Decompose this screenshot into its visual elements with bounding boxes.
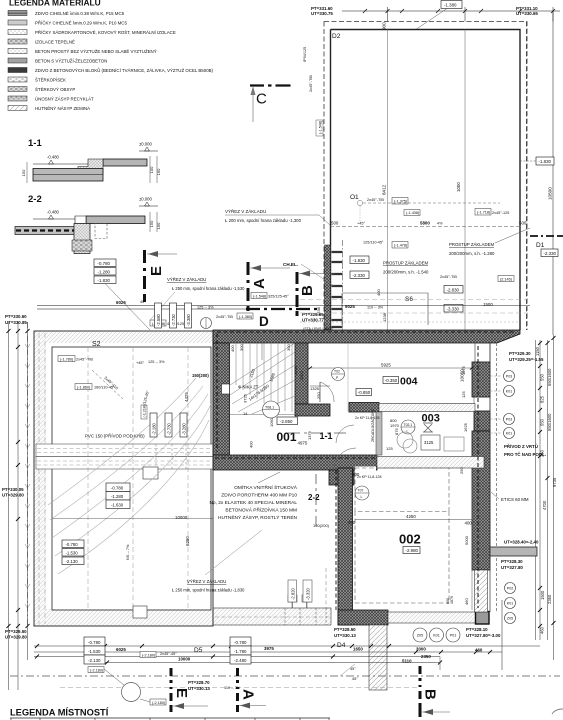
wall top <box>213 330 520 343</box>
svg-text:-2.130: -2.130 <box>88 658 101 663</box>
svg-text:ZDIVO POROTHERM 400 MM P10: ZDIVO POROTHERM 400 MM P10 <box>221 493 297 499</box>
svg-text:IZOLACE TEPELNÉ: IZOLACE TEPELNÉ <box>35 40 75 45</box>
svg-text:+45°: +45° <box>357 222 365 226</box>
svg-text:D5: D5 <box>194 647 203 654</box>
svg-text:1060: 1060 <box>269 417 274 427</box>
wall bottom of room 002 <box>338 610 388 625</box>
svg-text:125 -- 3%: 125 -- 3% <box>197 306 214 310</box>
svg-text:(-2.180): (-2.180) <box>142 654 156 658</box>
svg-text:900: 900 <box>382 22 387 30</box>
svg-text:125: 125 <box>386 446 393 451</box>
svg-text:UT=330.13: UT=330.13 <box>334 633 356 638</box>
svg-text:T08.1: T08.1 <box>265 406 274 410</box>
svg-text:2x45°-TIB: 2x45°-TIB <box>76 358 93 362</box>
svg-text:-1.530: -1.530 <box>88 649 101 654</box>
svg-text:1625: 1625 <box>463 422 468 432</box>
svg-text:P03: P03 <box>506 375 512 379</box>
left dashed outer boundary <box>27 322 29 626</box>
svg-text:UT=329.25=-1.55: UT=329.25=-1.55 <box>509 357 544 362</box>
svg-text:400: 400 <box>465 521 473 526</box>
svg-text:4250: 4250 <box>406 514 416 519</box>
svg-text:10500: 10500 <box>548 187 553 200</box>
svg-text:T02: T02 <box>334 370 340 374</box>
svg-text:2x45°-TIB: 2x45°-TIB <box>216 315 233 319</box>
vertical line right of B bottom <box>501 600 503 670</box>
svg-text:5000: 5000 <box>464 535 469 545</box>
svg-text:9025: 9025 <box>345 304 355 309</box>
right dim chain <box>536 335 554 660</box>
grid dashed verticals <box>88 347 188 610</box>
marker B top <box>283 262 335 316</box>
svg-text:PVC 150 (PŘÍVOD POD KRB): PVC 150 (PŘÍVOD POD KRB) <box>85 434 145 439</box>
corner block bottom right <box>476 612 490 625</box>
svg-text:5110: 5110 <box>402 659 412 664</box>
svg-text:D4: D4 <box>337 642 346 649</box>
marker E bottom <box>171 668 208 712</box>
legend row 5 plain concrete <box>8 49 157 55</box>
svg-text:150(200): 150(200) <box>192 373 209 378</box>
svg-text:K01: K01 <box>506 432 512 436</box>
svg-text:-1.830: -1.830 <box>353 258 366 263</box>
svg-text:2x45°-TIB: 2x45°-TIB <box>309 75 313 92</box>
left edge hatched pier stripe <box>332 252 343 327</box>
svg-text:-2.330: -2.330 <box>353 273 366 278</box>
mid foundation strip B <box>36 457 213 470</box>
svg-text:-0.780: -0.780 <box>98 261 111 266</box>
(-1.548) box <box>251 293 267 299</box>
room 002 dashed inner rect <box>355 468 449 512</box>
svg-text:250: 250 <box>459 467 464 474</box>
svg-text:P01: P01 <box>450 634 457 638</box>
svg-text:B: B <box>422 689 439 700</box>
svg-text:CH.EL.: CH.EL. <box>283 262 298 267</box>
svg-text:550: 550 <box>540 418 545 426</box>
svg-text:-0.480: -0.480 <box>47 210 60 215</box>
dim right 100/160 <box>149 156 151 183</box>
svg-text:150: 150 <box>21 169 26 176</box>
svg-text:300: 300 <box>286 344 291 351</box>
svg-text:UT=327.80: UT=327.80 <box>501 565 523 570</box>
legend row 8 gravel sand <box>8 77 66 83</box>
elevation stack lower left <box>62 540 84 565</box>
-1.380 box top <box>441 1 462 9</box>
svg-text:Np, 2x ELASTEK 40 SPECIAL MINE: Np, 2x ELASTEK 40 SPECIAL MINERAL <box>209 500 297 506</box>
svg-text:1-1: 1-1 <box>28 138 42 149</box>
svg-text:C: C <box>256 91 267 108</box>
svg-text:1970: 1970 <box>390 423 400 428</box>
svg-text:PT=330.60: PT=330.60 <box>5 314 27 319</box>
svg-text:-2.130: -2.130 <box>66 559 79 564</box>
washbasin box <box>421 435 440 450</box>
small (-2.180) boxes <box>88 667 104 673</box>
svg-text:-2.480: -2.480 <box>234 658 247 663</box>
svg-text:(STA.) RVS SWS5: (STA.) RVS SWS5 <box>303 327 333 331</box>
svg-text:300: 300 <box>239 344 244 351</box>
svg-text:4700: 4700 <box>542 500 547 510</box>
svg-text:45°: 45° <box>140 300 146 304</box>
svg-text:Z05: Z05 <box>507 617 513 621</box>
svg-text:(-1.218): (-1.218) <box>143 405 147 418</box>
right step slab <box>490 547 537 556</box>
svg-text:4975: 4975 <box>298 441 308 446</box>
svg-text:1325: 1325 <box>310 386 320 391</box>
rooms table top edge <box>10 717 330 719</box>
svg-text:-0.780: -0.780 <box>234 640 247 645</box>
svg-text:8412: 8412 <box>382 184 387 195</box>
svg-text:2000: 2000 <box>299 370 304 380</box>
terrace outer dashed outline <box>324 22 527 331</box>
svg-text:5925: 5925 <box>381 363 391 368</box>
svg-text:2x45°-125: 2x45°-125 <box>492 211 509 215</box>
svg-text:1870: 1870 <box>450 596 454 604</box>
svg-text:-3.380: -3.380 <box>186 313 191 326</box>
dim lines mid across courtyard <box>297 305 530 307</box>
svg-text:1150: 1150 <box>535 346 540 356</box>
svg-text:PT=329.30: PT=329.30 <box>509 351 531 356</box>
svg-text:K01: K01 <box>507 602 513 606</box>
svg-text:400: 400 <box>230 345 235 352</box>
svg-text:-1.380: -1.380 <box>444 3 457 8</box>
svg-text:14: 14 <box>243 411 248 416</box>
drain circle near D <box>201 318 212 329</box>
terrace joint line 8412 <box>387 30 389 331</box>
svg-text:3000: 3000 <box>416 647 426 652</box>
stair block <box>78 159 103 174</box>
svg-text:(-2.180): (-2.180) <box>90 669 104 673</box>
svg-text:PŘÍČKY CIHELNÉ λmin.0.29 W/m.K: PŘÍČKY CIHELNÉ λmin.0.29 W/m.K, P10 MC5 <box>35 21 127 26</box>
svg-text:250: 250 <box>316 392 321 399</box>
svg-text:4%: 4% <box>437 222 443 226</box>
svg-text:002: 002 <box>399 532 421 547</box>
svg-text:2x KP 11,8-128: 2x KP 11,8-128 <box>355 416 379 420</box>
svg-text:BETON PROSTÝ BEZ VÝZTUŽE NEBO: BETON PROSTÝ BEZ VÝZTUŽE NEBO SLABĚ VYZT… <box>35 49 157 54</box>
terrace inner solid rectangle <box>331 30 521 331</box>
right circles lower <box>505 583 516 624</box>
svg-text:BETON S VÝZTUŽÍ-ŽELEZOBETON: BETON S VÝZTUŽÍ-ŽELEZOBETON <box>35 59 107 64</box>
svg-text:550/1600: 550/1600 <box>547 413 552 431</box>
svg-text:(-1.380): (-1.380) <box>239 315 253 319</box>
svg-text:2x KP 11,8-128: 2x KP 11,8-128 <box>357 475 381 479</box>
svg-text:-3.320: -3.320 <box>306 587 311 600</box>
marker B bottom <box>420 666 450 717</box>
(-1.738) box small top <box>150 320 166 326</box>
svg-text:200/200mm, s.h. -1.280: 200/200mm, s.h. -1.280 <box>449 251 495 256</box>
-1.830 box right <box>536 157 554 165</box>
svg-text:10000: 10000 <box>175 515 188 520</box>
wall right segment d <box>474 411 490 431</box>
lower slab <box>33 169 103 182</box>
svg-text:UT=330.13: UT=330.13 <box>188 686 210 691</box>
svg-text:O1: O1 <box>350 194 359 201</box>
dim 500 5800 500 dashed <box>330 226 520 228</box>
dashed axis bottom <box>10 675 560 677</box>
wall 004/003 light part <box>379 404 475 412</box>
svg-text:(-1.478): (-1.478) <box>394 244 408 248</box>
svg-text:P02: P02 <box>507 587 513 591</box>
svg-text:160: 160 <box>156 222 161 229</box>
svg-text:(-1.548): (-1.548) <box>319 120 323 134</box>
svg-text:E: E <box>148 266 165 276</box>
legend row 6 reinforced concrete <box>8 58 107 64</box>
svg-text:Z05: Z05 <box>417 634 424 638</box>
svg-text:2-2: 2-2 <box>308 493 320 502</box>
left PT/UT labels <box>2 314 27 640</box>
top dimension line <box>342 7 560 22</box>
bottom dim chain <box>34 646 540 663</box>
wall 004/003 dark part <box>349 403 379 413</box>
footing strip below bottom wall <box>369 625 387 690</box>
svg-text:1238: 1238 <box>382 312 387 322</box>
svg-text:500: 500 <box>519 221 527 226</box>
svg-text:1375: 1375 <box>307 430 312 440</box>
left small marks <box>303 47 313 92</box>
svg-text:4425: 4425 <box>184 392 189 402</box>
svg-text:200/200mm, s.h. -1.540: 200/200mm, s.h. -1.540 <box>383 270 429 275</box>
dim line above building <box>37 306 297 310</box>
terrace joint line 10050 <box>464 30 466 331</box>
svg-text:Ł 200 mm, spodní hrana základu: Ł 200 mm, spodní hrana základu -1,300 <box>225 218 302 223</box>
legend row 7 concrete block masonry <box>8 68 214 74</box>
svg-text:3725: 3725 <box>243 393 248 403</box>
svg-text:1000: 1000 <box>456 182 461 192</box>
ETICS dashed boundary right <box>496 343 498 612</box>
svg-text:-0.850: -0.850 <box>358 390 371 395</box>
svg-text:ETICS 60 MM: ETICS 60 MM <box>501 497 529 502</box>
legend row 1 brick masonry <box>8 11 125 17</box>
wall right top piece <box>475 343 490 362</box>
svg-text:400: 400 <box>348 520 356 525</box>
svg-text:VÝŘEZ V ZÁKLADU: VÝŘEZ V ZÁKLADU <box>225 207 266 214</box>
svg-text:460: 460 <box>540 626 545 634</box>
svg-text:-0.480: -0.480 <box>47 155 60 160</box>
svg-text:460: 460 <box>464 598 469 605</box>
svg-text:400: 400 <box>249 441 254 448</box>
svg-text:-0.780: -0.780 <box>88 640 101 645</box>
svg-text:-1.280: -1.280 <box>111 494 124 499</box>
svg-text:-2.980: -2.980 <box>406 548 419 553</box>
svg-text:1650: 1650 <box>353 647 363 652</box>
svg-text:001: 001 <box>277 430 297 444</box>
svg-text:HUTNĚNÝ NÁSYP ZEMINA: HUTNĚNÝ NÁSYP ZEMINA <box>35 106 90 111</box>
elevation stack top left <box>94 259 116 284</box>
dim right 150/160 <box>149 212 151 232</box>
stairs in room 001 <box>230 343 295 415</box>
svg-text:±0.000: ±0.000 <box>139 197 152 202</box>
svg-text:1500: 1500 <box>293 365 298 375</box>
leader diagonal <box>92 370 123 399</box>
wall bottom of room 001 <box>213 455 377 470</box>
bottom elevation stack mid <box>230 637 251 664</box>
svg-text:-1.530: -1.530 <box>66 551 79 556</box>
svg-text:3975: 3975 <box>264 646 274 651</box>
legend row 3 drywall partitions <box>8 30 176 36</box>
bottom right detail arc <box>552 709 563 714</box>
svg-text:9735: 9735 <box>552 477 557 487</box>
foundation wall block <box>74 224 90 254</box>
right circles P03 K01 <box>504 371 515 439</box>
svg-text:PROSTUP ZÁKLADEM: PROSTUP ZÁKLADEM <box>383 261 428 266</box>
marker A top <box>248 262 290 311</box>
svg-text:500: 500 <box>331 221 339 226</box>
upper slab <box>86 216 145 224</box>
bottom circles row <box>413 628 460 642</box>
svg-text:-1.280: -1.280 <box>98 270 111 275</box>
svg-text:D1: D1 <box>536 242 545 249</box>
svg-text:110 -- 3%: 110 -- 3% <box>224 686 241 690</box>
left slab with insulation dashes <box>15 227 84 235</box>
svg-text:10000: 10000 <box>178 657 191 662</box>
svg-text:LEGENDA MATERIÁLŮ: LEGENDA MATERIÁLŮ <box>9 0 101 8</box>
marker D <box>246 309 317 329</box>
excavation perimeter hatch bands <box>34 331 213 343</box>
svg-text:L: L <box>361 495 363 499</box>
svg-text:ŠTĚRKOPÍSEK: ŠTĚRKOPÍSEK <box>35 78 66 83</box>
mid foundation strip A <box>36 444 213 457</box>
sub rectangle below S6 <box>342 293 428 325</box>
svg-text:PT=328.10: PT=328.10 <box>466 627 488 632</box>
svg-text:6025: 6025 <box>116 647 126 652</box>
svg-text:110 -- 3%: 110 -- 3% <box>367 306 384 310</box>
svg-text:550: 550 <box>540 373 545 381</box>
rotated elevation boxes top <box>155 303 192 328</box>
svg-text:K01: K01 <box>506 390 512 394</box>
rotated elevation boxes near bottom band <box>288 580 297 602</box>
svg-text:1238: 1238 <box>316 306 321 316</box>
wall left of room 002 <box>338 468 353 625</box>
svg-text:+45°: +45° <box>136 361 144 365</box>
svg-text:460: 460 <box>475 648 483 653</box>
svg-text:5800: 5800 <box>420 221 430 226</box>
svg-text:A: A <box>251 278 268 289</box>
svg-text:(-1.548): (-1.548) <box>253 295 267 299</box>
wall right segment b <box>472 362 490 397</box>
svg-text:UT=329.80: UT=329.80 <box>5 635 27 640</box>
svg-text:-1.630: -1.630 <box>111 503 124 508</box>
excavation outer outline <box>34 331 213 626</box>
svg-text:1-1: 1-1 <box>320 431 333 441</box>
svg-text:ZDIVO Z BETONOVÝCH BLOKŮ (BEDN: ZDIVO Z BETONOVÝCH BLOKŮ (BEDNÍCÍ TVÁRNI… <box>35 68 214 73</box>
svg-text:400: 400 <box>376 289 381 296</box>
svg-text:325/125-45°: 325/125-45° <box>268 295 289 299</box>
svg-text:3125: 3125 <box>424 440 434 445</box>
section detail 1-1 <box>21 138 161 183</box>
svg-text:125: 125 <box>461 391 466 398</box>
left dim chain verticals <box>9 322 28 690</box>
svg-text:(-1.718): (-1.718) <box>477 211 491 215</box>
svg-text:(-1.438): (-1.438) <box>406 211 420 215</box>
light band bottom wall 002 <box>388 612 476 623</box>
svg-text:150: 150 <box>149 220 154 227</box>
legend row 11 compacted fill <box>8 106 90 112</box>
svg-text:-2.580: -2.580 <box>156 313 161 326</box>
legend row 2 brick partitions <box>8 20 127 26</box>
svg-text:(-2.180): (-2.180) <box>152 701 166 705</box>
svg-text:ŠTĚRKOVÝ OBSYP: ŠTĚRKOVÝ OBSYP <box>35 87 75 92</box>
svg-text:-2.850: -2.850 <box>280 419 293 424</box>
section line 1-1 <box>288 432 346 434</box>
svg-text:UT=330.85: UT=330.85 <box>5 320 27 325</box>
svg-text:6025: 6025 <box>116 300 126 305</box>
elevation stack upper right <box>106 483 130 509</box>
elevation box (-1.780) <box>58 356 75 362</box>
svg-text:-2.180: -2.180 <box>152 422 157 435</box>
svg-text:45°: 45° <box>350 667 356 671</box>
section line 2-2 <box>315 474 317 526</box>
wc fixture <box>397 432 413 448</box>
svg-text:PT=328.30: PT=328.30 <box>501 559 523 564</box>
svg-text:150(200): 150(200) <box>313 523 330 528</box>
svg-text:2x45°-TIB: 2x45°-TIB <box>440 275 457 279</box>
svg-text:-1.830: -1.830 <box>539 159 552 164</box>
svg-text:PŘÍČKY SÁDROKARTONOVÉ, KOVOVÝ: PŘÍČKY SÁDROKARTONOVÉ, KOVOVÝ ROŠT, MINE… <box>35 30 176 35</box>
svg-text:B: B <box>299 285 316 296</box>
svg-text:1500: 1500 <box>483 302 493 307</box>
wall left <box>213 343 230 455</box>
wall stub below 001 <box>329 470 354 485</box>
legend row 4 thermal insulation <box>8 39 75 45</box>
partition in 003 <box>376 412 382 455</box>
svg-text:-3.330: -3.330 <box>447 307 460 312</box>
svg-text:125 -- 3%: 125 -- 3% <box>148 360 165 364</box>
svg-text:875: 875 <box>394 428 399 435</box>
svg-text:Φ NIKA ZT: Φ NIKA ZT <box>238 385 259 390</box>
svg-text:6250: 6250 <box>185 536 190 546</box>
circle T08.1 <box>263 401 280 418</box>
svg-text:UT=327.80=-3.00: UT=327.80=-3.00 <box>466 633 501 638</box>
legend row 10 recycled fill <box>8 96 94 102</box>
room door arcs <box>320 382 334 402</box>
right dashed line <box>526 22 528 331</box>
material note text block <box>209 483 297 521</box>
svg-text:-0.780: -0.780 <box>111 486 124 491</box>
svg-text:P03: P03 <box>506 418 512 422</box>
bottom elevation stack left <box>84 637 105 664</box>
svg-text:1875: 1875 <box>461 365 466 375</box>
marker A bottom <box>238 668 267 712</box>
svg-text:-2.730: -2.730 <box>171 313 176 326</box>
svg-text:Ł 250 mm, spodní hrana základu: Ł 250 mm, spodní hrana základu -1,530 <box>172 286 245 291</box>
svg-text:-0.780: -0.780 <box>66 542 79 547</box>
svg-text:D2: D2 <box>332 33 341 40</box>
svg-text:-2.820: -2.820 <box>291 587 296 600</box>
svg-text:ÚNOSNÝ ZÁSYP RECYKLÁT: ÚNOSNÝ ZÁSYP RECYKLÁT <box>35 97 94 102</box>
svg-text:2-2: 2-2 <box>28 194 42 205</box>
svg-text:ZRCADLO/ZÁCLONZ: ZRCADLO/ZÁCLONZ <box>371 409 375 442</box>
excavation inner outline <box>52 347 211 610</box>
svg-text:PŘÍVOD Z VRTŮ: PŘÍVOD Z VRTŮ <box>504 444 538 449</box>
svg-text:100: 100 <box>149 166 154 173</box>
svg-text:S2: S2 <box>92 341 101 348</box>
svg-text:NS -- 7%: NS -- 7% <box>126 544 130 560</box>
svg-text:LEGENDA MÍSTNOSTÍ: LEGENDA MÍSTNOSTÍ <box>10 708 109 718</box>
svg-text:PT=328.50: PT=328.50 <box>334 627 356 632</box>
svg-text:550/1600: 550/1600 <box>547 368 552 386</box>
svg-text:UT=330.77: UT=330.77 <box>302 318 324 323</box>
wall right gap lines <box>474 397 490 411</box>
svg-text:PT=330.05: PT=330.05 <box>2 487 24 492</box>
section detail 2-2 <box>15 194 161 254</box>
svg-text:825: 825 <box>540 395 545 403</box>
svg-text:VÝŘEZ V ZÁKLADU: VÝŘEZ V ZÁKLADU <box>187 579 226 584</box>
svg-text:(2.145): (2.145) <box>500 278 513 282</box>
svg-text:VÝŘEZ V ZÁKLADU: VÝŘEZ V ZÁKLADU <box>167 277 206 282</box>
svg-text:-0.350: -0.350 <box>385 378 398 383</box>
svg-text:PROSTUP ZÁKLADEM: PROSTUP ZÁKLADEM <box>449 242 494 247</box>
wall piece left of 003 <box>295 404 330 416</box>
svg-text:Ł 250 mm, spodní hrana základu: Ł 250 mm, spodní hrana základu -1,830 <box>172 588 245 593</box>
foundation band extension to building <box>213 608 331 625</box>
svg-text:T07: T07 <box>358 489 364 493</box>
